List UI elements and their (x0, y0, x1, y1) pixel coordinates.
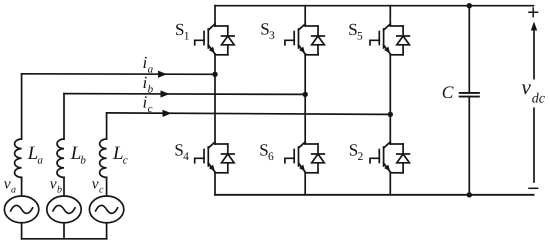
svg-text:6: 6 (268, 151, 274, 163)
v_dc measurement arrow shaft (upper) (533, 29, 535, 79)
capacitor C top plate (460, 92, 479, 94)
wire: phase a horizontal line (22, 73, 215, 76)
current arrow i_c (163, 110, 172, 117)
svg-text:v: v (92, 176, 99, 193)
wire: leg 3 collector lead from top rail (389, 6, 391, 26)
wire: leg 1 mid section (S1 emitter to S4 collector) (214, 54, 216, 144)
svg-text:b: b (148, 83, 154, 95)
current arrow i_a (158, 71, 167, 78)
wire: leg 1 bottom lead to bottom rail (214, 173, 216, 195)
wire: phase c vertical drop to inductor (106, 113, 108, 139)
svg-text:5: 5 (357, 31, 363, 43)
capacitor C bottom plate (460, 96, 479, 98)
svg-text:c: c (148, 103, 153, 115)
wire: bottom DC rail (215, 194, 534, 196)
svg-text:b: b (80, 154, 86, 166)
switch S2: IGBT with anti-parallel diode (370, 142, 409, 173)
AC source vb (47, 196, 81, 223)
switch S1: IGBT with anti-parallel diode (195, 24, 234, 55)
svg-text:b: b (57, 184, 62, 195)
plus sign (positive DC terminal) (529, 8, 538, 17)
switch S3: IGBT with anti-parallel diode (285, 24, 324, 55)
inductor Lc (100, 139, 107, 177)
svg-text:dc: dc (532, 92, 546, 107)
wire: leg 2 collector lead from top rail (304, 6, 306, 26)
svg-text:v: v (50, 176, 57, 193)
capacitor C leg: bottom lead (468, 97, 470, 195)
svg-text:v: v (4, 176, 11, 193)
svg-text:a: a (148, 63, 154, 75)
node: phase b to leg 2 junction (303, 92, 308, 97)
v_dc measurement arrow head (531, 22, 537, 31)
switch S5: IGBT with anti-parallel diode (370, 24, 409, 55)
switch S6: IGBT with anti-parallel diode (285, 142, 324, 173)
wire: phase b vertical drop to inductor (63, 94, 65, 139)
node: phase a to leg 1 junction (212, 72, 217, 77)
v_dc measurement arrow shaft (lower) (533, 108, 535, 182)
switch S4: IGBT with anti-parallel diode (195, 142, 234, 173)
node: capacitor to bottom rail (467, 192, 472, 197)
svg-text:c: c (99, 184, 104, 195)
svg-text:3: 3 (269, 30, 275, 42)
wire: vc to neutral bus (106, 223, 108, 239)
svg-text:2: 2 (358, 151, 364, 163)
svg-text:a: a (11, 184, 16, 195)
wire: leg 3 bottom lead to bottom rail (389, 173, 391, 195)
wire: va to neutral bus (21, 223, 23, 239)
wire: Lc to source vc (106, 177, 108, 196)
capacitor C leg: top lead (468, 6, 470, 93)
node: capacitor to top rail (467, 3, 472, 8)
svg-text:1: 1 (184, 31, 190, 43)
wire: phase c horizontal line (107, 113, 391, 115)
wire: phase a vertical drop to inductor (21, 74, 23, 139)
current arrow i_b (161, 90, 170, 97)
AC source va (4, 196, 38, 223)
svg-text:C: C (442, 82, 454, 102)
wire: vb to neutral bus (63, 223, 65, 239)
wire: neutral bus (22, 238, 107, 240)
minus sign (negative DC terminal) (529, 187, 538, 189)
wire: leg 2 bottom lead to bottom rail (304, 173, 306, 195)
svg-text:c: c (123, 154, 128, 166)
svg-text:4: 4 (183, 151, 189, 163)
wire: phase b horizontal line (64, 93, 305, 96)
node: phase c to leg 3 junction (388, 112, 393, 117)
wire: top DC rail (215, 5, 534, 7)
wire: La to source va (21, 177, 23, 196)
wire: leg 1 collector lead from top rail (214, 6, 216, 26)
wire: leg 3 mid section (S5 emitter to S2 collector) (389, 54, 391, 144)
wire: Lb to source vb (63, 177, 65, 196)
AC source vc (89, 196, 123, 223)
inductor Lb (57, 139, 64, 177)
wire: leg 2 mid section (S3 emitter to S6 collector) (304, 54, 306, 144)
inductor La (15, 139, 22, 177)
svg-text:v: v (522, 75, 532, 99)
svg-text:a: a (37, 154, 43, 166)
